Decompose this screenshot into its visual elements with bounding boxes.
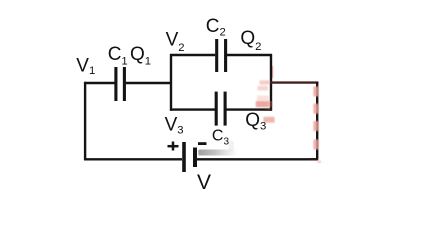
wire: parallel-section top, right of C2 xyxy=(227,54,272,56)
red tinge on rect right side xyxy=(272,66,274,78)
wire: parallel-section left side (node V2 to V3) xyxy=(170,54,172,111)
red dashed annotation: dash below junction xyxy=(258,86,269,91)
red dashed annotation: dashes on right vertical wire xyxy=(313,87,318,150)
wire: bottom right from battery - plate to right corner xyxy=(197,158,316,160)
battery minus sign xyxy=(198,142,207,145)
capacitor C3 plates xyxy=(216,92,225,126)
red dashed annotation: dash near junction top xyxy=(260,80,270,84)
battery plus sign xyxy=(168,142,179,151)
red dashed annotation: halo above mid dash xyxy=(257,96,269,101)
wire: top-left from node V1 to capacitor C1 xyxy=(85,82,115,84)
wire: from capacitor C1 to node V2/V3 junction xyxy=(126,82,171,84)
smudge artifact right of battery xyxy=(198,141,237,156)
battery V: long positive plate xyxy=(182,142,186,172)
wire: parallel-section bottom, left of C3 xyxy=(170,108,215,110)
svg-text:V: V xyxy=(197,171,211,194)
wire: parallel-section bottom, right of C3 xyxy=(227,108,273,110)
wire: left vertical side xyxy=(84,82,86,160)
wire: right vertical down to bottom xyxy=(316,82,318,160)
wire: parallel-section right side xyxy=(270,54,272,111)
red dashed annotation: dash near Q3 xyxy=(264,117,275,123)
red tint on rect bottom wire near corner xyxy=(265,108,272,110)
capacitor C2 plates xyxy=(217,39,226,72)
wire: branch from right side to right loop (red tinted) xyxy=(271,81,318,83)
wire: bottom left to battery + plate xyxy=(84,158,182,160)
wire: bottom-right segment with red pen tint xyxy=(309,158,318,160)
red dashed annotation: dash mid xyxy=(256,101,270,107)
battery V: short negative plate xyxy=(193,148,197,168)
wire: parallel-section top, left of C2 xyxy=(170,54,215,56)
capacitor C1 plates xyxy=(116,67,125,101)
red tint where dash crosses right-side wire xyxy=(270,101,272,107)
pink speck at bottom right corner xyxy=(318,160,321,163)
